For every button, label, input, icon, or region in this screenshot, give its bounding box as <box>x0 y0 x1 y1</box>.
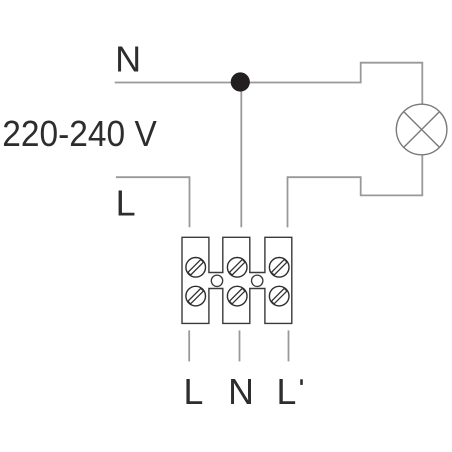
svg-text:220-240 V: 220-240 V <box>2 114 157 154</box>
svg-text:N: N <box>115 38 141 79</box>
svg-text:L: L <box>277 372 297 412</box>
svg-text:L: L <box>184 372 204 412</box>
svg-text:L: L <box>116 182 136 223</box>
svg-text:N: N <box>228 372 254 412</box>
